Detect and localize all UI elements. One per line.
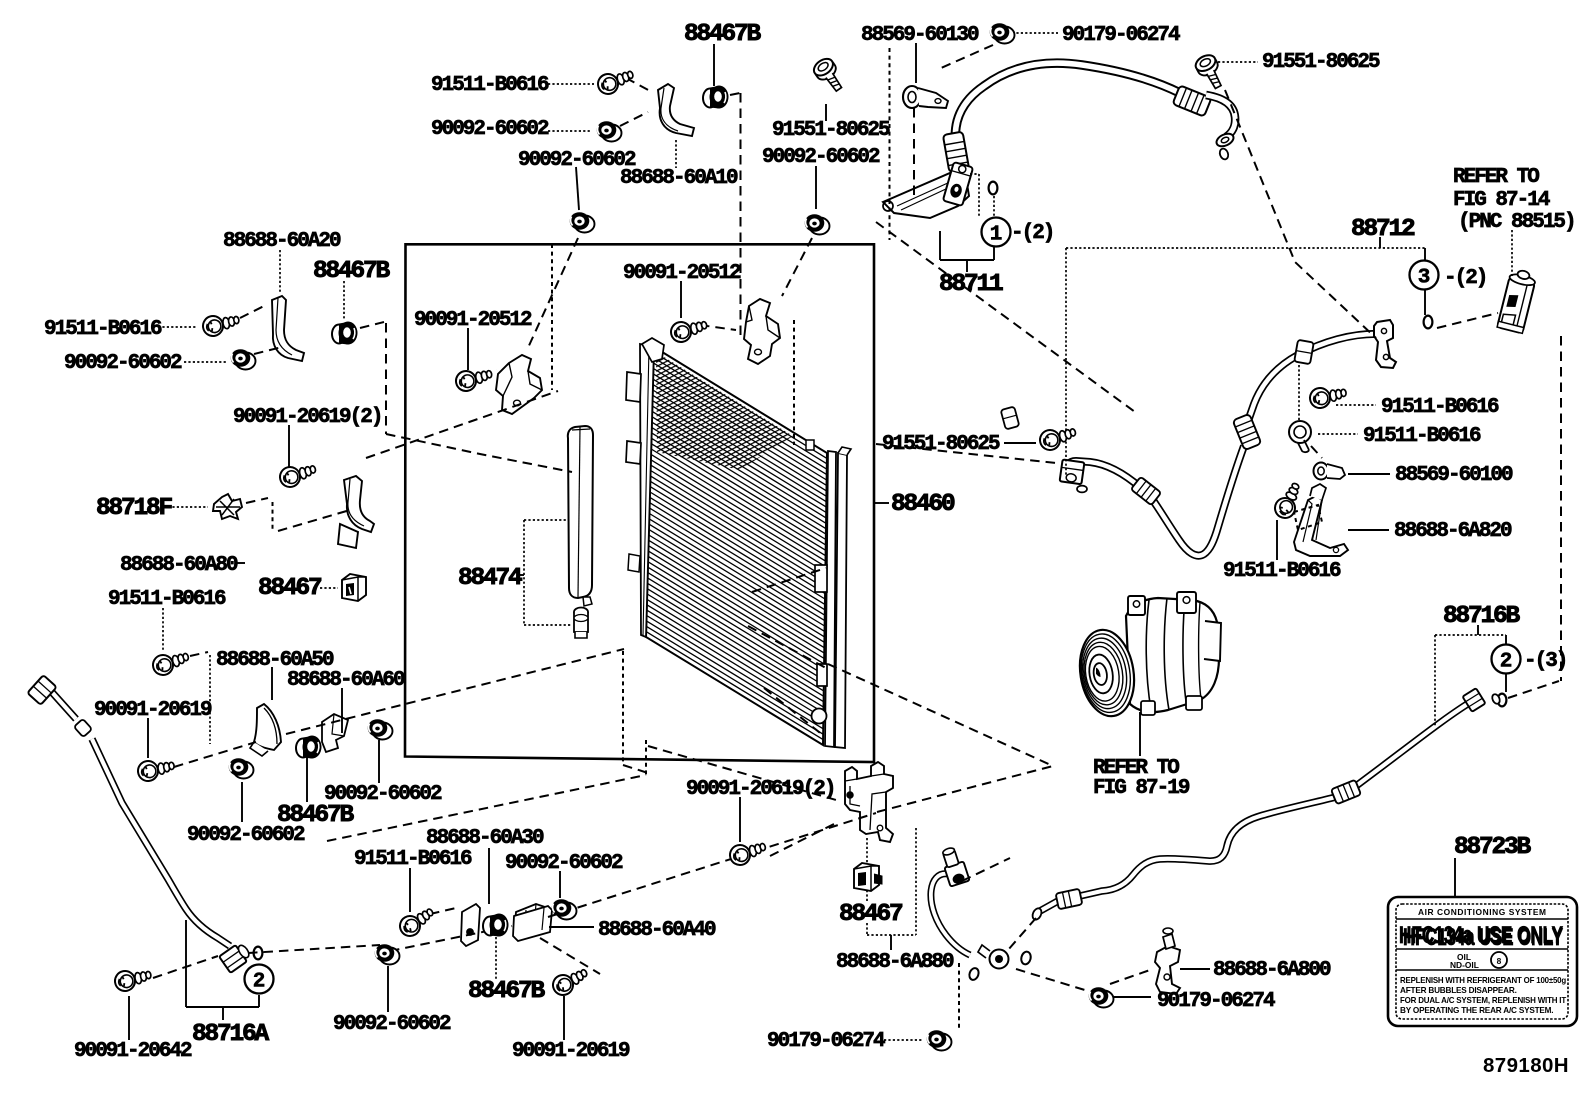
svg-text:AFTER BUBBLES DISAPPEAR.: AFTER BUBBLES DISAPPEAR. [1400,986,1517,995]
dashed line [254,347,282,354]
hose 88711 metal elbow [1206,95,1235,161]
leader [341,688,343,733]
svg-text:88688-60A30: 88688-60A30 [426,827,544,850]
nut 90092-60602 [229,758,254,778]
svg-text:88467B: 88467B [684,21,762,48]
grommet 88467B [296,736,322,759]
svg-text:88474: 88474 [458,565,522,592]
screw 90091-20619 [137,757,176,782]
leader [378,740,380,783]
hose 88711 [955,63,1180,150]
tube 88716A end fitting [219,941,253,973]
dashed line [1311,446,1322,458]
bracket 88716A [185,920,187,1007]
bracket 88716B [1477,625,1479,635]
tube 88712 ferrule [1233,414,1262,450]
dashed line [782,238,812,296]
callout circle 2 (88716B) [1492,645,1521,674]
dashed line [623,765,648,773]
svg-text:FOR DUAL A/C SYSTEM, REPLENISH: FOR DUAL A/C SYSTEM, REPLENISH WITH IT [1400,996,1566,1005]
condenser left tab [628,554,640,572]
dashed line [390,926,512,951]
condenser port [815,565,827,592]
bracket 88711 [966,260,968,272]
bracket 88711 [939,231,941,260]
tube 88716B open end [1031,907,1043,921]
bracket 88467/6A880 [866,890,868,901]
condenser left fitting [626,372,641,402]
svg-text:90092-60602: 90092-60602 [762,146,880,169]
svg-text:2: 2 [1500,651,1513,674]
svg-text:90092-60602: 90092-60602 [431,118,549,141]
svg-text:1: 1 [990,224,1003,247]
o-ring callout2b [1498,694,1507,707]
dashed line [941,45,993,68]
leader [680,281,682,318]
svg-text:-(2): -(2) [1011,222,1053,245]
screw 91511-B0616 [1271,480,1307,522]
svg-text:91511-B0616: 91511-B0616 [44,318,162,341]
dashed line [626,78,652,92]
svg-text:88467: 88467 [839,901,903,928]
tube 88716B crimp right [1331,780,1361,805]
bracket 88467/6A880 [915,828,917,935]
bracket 88467/6A880 [866,923,868,935]
bracket pipe 88711 triangle [883,173,969,218]
svg-text:90092-60602: 90092-60602 [518,149,636,172]
svg-text:3: 3 [1418,267,1431,290]
svg-text:88688-60A80: 88688-60A80 [120,554,238,577]
leader [825,104,827,121]
svg-text:91551-80625: 91551-80625 [882,433,1000,456]
dashed line [1225,90,1376,338]
screw 91511-B0616 [1289,421,1311,452]
dashed line [278,510,350,531]
bracket 88716B [1505,635,1507,645]
clip 88718F [213,494,242,519]
leader [1336,404,1376,406]
bracket 88716A [222,1007,224,1020]
dashed line [540,938,600,974]
o-ring [968,967,980,981]
nut 90092-60602 [375,944,400,964]
condenser right bar cap [838,447,851,455]
leader [467,328,469,370]
bracket 88688-60A40 [513,906,552,941]
tube 88716B crimp left [1056,889,1083,910]
hose 88711 ferrule left [943,132,969,173]
bracket 88467/6A880 [890,935,892,950]
condenser tab [806,440,814,450]
svg-text:90179-06274: 90179-06274 [1157,990,1275,1013]
dashed line [190,652,208,656]
svg-text:88569-60100: 88569-60100 [1395,464,1513,487]
screw 90091-20642 [113,967,152,993]
condenser right frame [825,451,836,747]
leader [241,782,243,822]
svg-text:88716A: 88716A [192,1021,270,1048]
dashed line [1437,313,1498,328]
svg-text:88716B: 88716B [1443,603,1521,630]
bolt 91551-80625 [811,55,848,95]
screw 90091-20619 [278,461,318,489]
tube 88716B [1040,700,1474,911]
bracket B1 (condenser mount) [496,355,542,414]
screw 90091-20512 [669,317,709,344]
leader [915,43,917,83]
svg-text:879180H: 879180H [1483,1054,1569,1077]
leader [409,868,411,912]
svg-text:88688-6A880: 88688-6A880 [836,951,954,974]
leader [1004,442,1036,444]
leader [1012,32,1058,34]
bracket 88712 [1065,248,1067,476]
svg-text:90092-60602: 90092-60602 [505,852,623,875]
svg-text:-(2): -(2) [1444,267,1486,290]
dashed line [1016,969,1088,991]
leader [271,667,273,700]
dashed line [913,108,915,195]
svg-text:91551-80625: 91551-80625 [1262,51,1380,74]
bracket 88474 [523,520,525,625]
dashed line [620,112,648,126]
svg-text:91551-80625: 91551-80625 [772,119,890,142]
svg-text:ND-OIL: ND-OIL [1450,960,1479,970]
screw 91511-B0616 [396,904,438,940]
leader [1276,520,1278,560]
dashed line [527,238,578,350]
leader [675,140,677,168]
dashed line [770,822,838,856]
dashed line [385,323,387,434]
bracket 88688-60A10 [658,84,694,136]
dashed line [1110,970,1150,984]
svg-text:88723B: 88723B [1454,834,1532,861]
bracket 88467/6A880 [866,838,868,864]
dashed line [551,244,553,390]
svg-text:FIG 87-19: FIG 87-19 [1093,777,1190,800]
nut 90179-06274 [990,23,1015,43]
leader [1218,61,1258,63]
leader [548,83,594,85]
dashed line [248,945,380,953]
dashed line [828,664,1053,766]
svg-text:90091-20512: 90091-20512 [623,262,741,285]
leader [1348,473,1390,475]
condenser 88460 core fins [646,347,827,745]
dashed line [748,626,826,668]
leader [162,608,164,652]
svg-text:88688-6A820: 88688-6A820 [1394,520,1512,543]
leader [1454,858,1456,896]
leader [1298,365,1300,420]
dashed line [548,813,876,917]
hose 6A880 end fitting [978,945,1009,969]
svg-text:88688-60A10: 88688-60A10 [620,167,738,190]
dashed line [366,391,558,458]
leader [713,44,715,86]
tube 88716A [50,690,230,946]
grommet 88467B [703,86,729,109]
leader [128,996,130,1040]
svg-text:90091-20619(2): 90091-20619(2) [686,778,834,801]
bracket 88688-60A50 [250,704,281,756]
dashed line [889,48,891,240]
svg-text:91511-B0616: 91511-B0616 [1381,396,1499,419]
dashed outline [1294,505,1322,530]
svg-text:91511-B0616: 91511-B0616 [431,74,549,97]
leader [158,326,197,328]
leader [739,797,741,842]
svg-text:90091-20642: 90091-20642 [74,1040,192,1063]
svg-text:88711: 88711 [939,271,1003,298]
o-ring 88716A [254,947,263,960]
callout circle 1 [982,218,1011,247]
bracket 88712 [1066,247,1425,249]
bracket 88716B [1505,673,1507,692]
svg-text:REFER TO: REFER TO [1453,166,1539,189]
bolt 91551-80625 [1193,52,1228,92]
leader [548,130,590,132]
tube 88712 [1066,334,1380,556]
dashed line [876,222,1135,412]
bracket 88712 [1424,248,1426,261]
tube 88716B end fitting [1462,688,1485,712]
o-ring 88716B end [1491,693,1501,705]
dashed line [153,956,218,978]
svg-text:88467B: 88467B [468,978,546,1005]
bracket 88712 [1424,290,1426,315]
svg-text:88467B: 88467B [313,258,391,285]
screw 90091-20512 [454,366,494,393]
cushion 88467 (right) [854,863,882,891]
tube clamp on 88712 [1294,340,1314,364]
bracket 90091-20619(2) mount [845,762,893,842]
condenser hatch shading [656,352,793,470]
svg-text:88688-6A800: 88688-6A800 [1213,959,1331,982]
bracket 88467/6A880 [867,934,916,936]
leader [288,425,290,468]
tube 88712 end flange [1374,320,1396,368]
leader [237,562,245,564]
bracket 88712 [1379,237,1381,248]
tube 88712 end block [1060,459,1085,484]
condenser left tank inner line [643,346,649,636]
svg-text:91511-B0616: 91511-B0616 [108,588,226,611]
condenser right outer bar [835,453,847,748]
o-ring [1020,951,1032,966]
nut 90092-60602 [597,121,622,141]
svg-text:90091-20512: 90091-20512 [414,309,532,332]
dashed line [246,498,268,503]
condenser corner bracket [642,338,664,362]
dashed line [1560,336,1562,681]
leader [306,757,308,802]
dashed line [386,434,572,472]
leader [168,506,208,508]
nut 90092-60602 [805,214,830,234]
bracket 88716A [258,995,260,1007]
svg-text:FIG 87-14: FIG 87-14 [1453,189,1550,212]
nut 90179-06274 [927,1030,952,1050]
dashed line [764,688,824,736]
callout circle 2 (88716A) [245,965,274,994]
svg-text:-(3): -(3) [1524,650,1566,673]
svg-text:BY OPERATING THE REAR A/C SYST: BY OPERATING THE REAR A/C SYSTEM. [1400,1006,1553,1015]
leader [387,966,389,1012]
screw 91551-80625 [1038,424,1078,452]
svg-text:AIR CONDITIONING SYSTEM: AIR CONDITIONING SYSTEM [1418,907,1546,917]
bracket 88688-6A800 [1155,928,1180,994]
nut 90092-60602 [368,719,393,739]
leader [1113,996,1151,998]
cushion 88467 (left) [342,574,366,601]
dashed line [360,322,384,328]
leader [184,361,226,363]
svg-text:91511-B0616: 91511-B0616 [1223,560,1341,583]
dashed line [286,649,624,734]
dashed line [1008,918,1036,950]
svg-text:88688-60A40: 88688-60A40 [598,919,716,942]
leader circle1 [978,174,980,216]
leader circle1 [993,196,995,216]
svg-text:HFC134a USE ONLY: HFC134a USE ONLY [1403,924,1563,951]
dashed line [700,325,736,330]
svg-text:88688-60A20: 88688-60A20 [223,230,341,253]
hose 6A880 elbow fitting [939,845,969,886]
dashed line [240,305,266,318]
bracket B2 (condenser mount upper) [744,299,780,364]
dashed line [1508,681,1559,698]
clamp 88569-60130 [903,86,948,108]
svg-text:88467: 88467 [258,575,322,602]
leader [815,166,817,209]
dashed line [622,651,624,765]
bracket 88688-60A60 [322,714,348,752]
nut 90092-60602 [552,899,577,919]
leader [559,871,561,898]
tube 88716A crimp [74,719,92,737]
dashed line [752,568,826,592]
leader [1180,968,1210,970]
leader [1348,529,1389,531]
leader [147,718,149,758]
dashed line [482,370,497,374]
dashed line [648,746,836,800]
dashed line [430,908,456,914]
screw 91511-B0616 [1309,384,1348,409]
leader [563,996,565,1040]
bracket 88716B [1434,635,1436,726]
condenser port [817,664,827,686]
leader [874,502,889,504]
svg-text:91511-B0616: 91511-B0616 [354,848,472,871]
svg-text:88460: 88460 [891,491,955,518]
bracket 88711 [993,246,995,260]
compressor body (refer fig 87-19) [1126,592,1221,715]
hose 88711 ferrule right [1172,85,1211,116]
svg-text:8: 8 [1497,956,1502,966]
dashed line [962,858,1010,881]
leader [549,926,594,928]
bracket 88688-60A20 [272,296,304,361]
condenser port [812,709,827,724]
leader [495,937,497,980]
leader circle1 [970,173,979,175]
bracket 88474 [524,519,568,521]
dashed line [645,740,647,775]
leader [320,587,338,589]
svg-text:REPLENISH WITH REFRIGERANT OF: REPLENISH WITH REFRIGERANT OF 100±50g [1400,976,1566,985]
drier fitting cylinder [574,608,588,639]
dashed line [730,93,740,95]
dashed line [327,775,646,841]
condenser assembly box [405,244,874,762]
dashed line [272,502,274,530]
callout circle 3 (88712) [1410,261,1439,290]
svg-text:90179-06274: 90179-06274 [1062,24,1180,47]
dashed line [876,444,1056,463]
svg-text:90091-20619: 90091-20619 [512,1040,630,1063]
svg-text:88467B: 88467B [277,802,355,829]
leader [1511,230,1513,276]
condenser left fitting [626,441,641,464]
compressor pulley [1074,626,1140,720]
nut 90179-06274 [1089,987,1114,1007]
grommet 88467B [332,322,358,345]
leader [343,281,345,320]
leader [884,1039,922,1041]
leader [279,250,281,294]
tube 88712 crimp [1131,477,1161,506]
leader [488,848,490,904]
svg-text:90092-60602: 90092-60602 [64,352,182,375]
nut 90092-60602 [231,349,256,369]
leader [209,655,211,744]
leader [1139,712,1141,756]
svg-text:2: 2 [253,971,266,994]
svg-text:90091-20619: 90091-20619 [94,699,212,722]
dashed line [958,963,960,1031]
leader [576,167,579,210]
screw 90091-20619 [550,965,592,999]
bracket 88474 [524,624,572,626]
label 88723B sticker [1388,897,1577,1026]
svg-text:88712: 88712 [1351,216,1415,243]
clamp 88569-60100 [1314,463,1346,480]
bracket 88688-6A820 [1294,484,1348,556]
nut 90092-60602 [570,212,595,232]
hose 88711 lower joint block [943,162,973,206]
bracket 88716B [1435,634,1506,636]
condenser core outline [646,347,827,745]
screw 91511-B0616 [201,312,240,338]
expansion valve (PNC 88515) [1497,268,1537,333]
dashed line [793,320,795,445]
condenser left tank [640,344,654,637]
svg-text:(PNC 88515): (PNC 88515) [1458,211,1575,234]
tube 88712 ring [1077,486,1087,493]
receiver drier 88474 [568,426,593,606]
dashed line [740,93,742,340]
bracket 88716A [186,1006,259,1008]
bracket 88688-60A30 [461,904,548,946]
svg-text:90092-60602: 90092-60602 [333,1013,451,1036]
bracket 88688-60A80 [338,476,374,548]
screw 91511-B0616 [151,648,191,677]
o-ring callout3 [1424,316,1433,329]
svg-text:88569-60130: 88569-60130 [861,24,979,47]
